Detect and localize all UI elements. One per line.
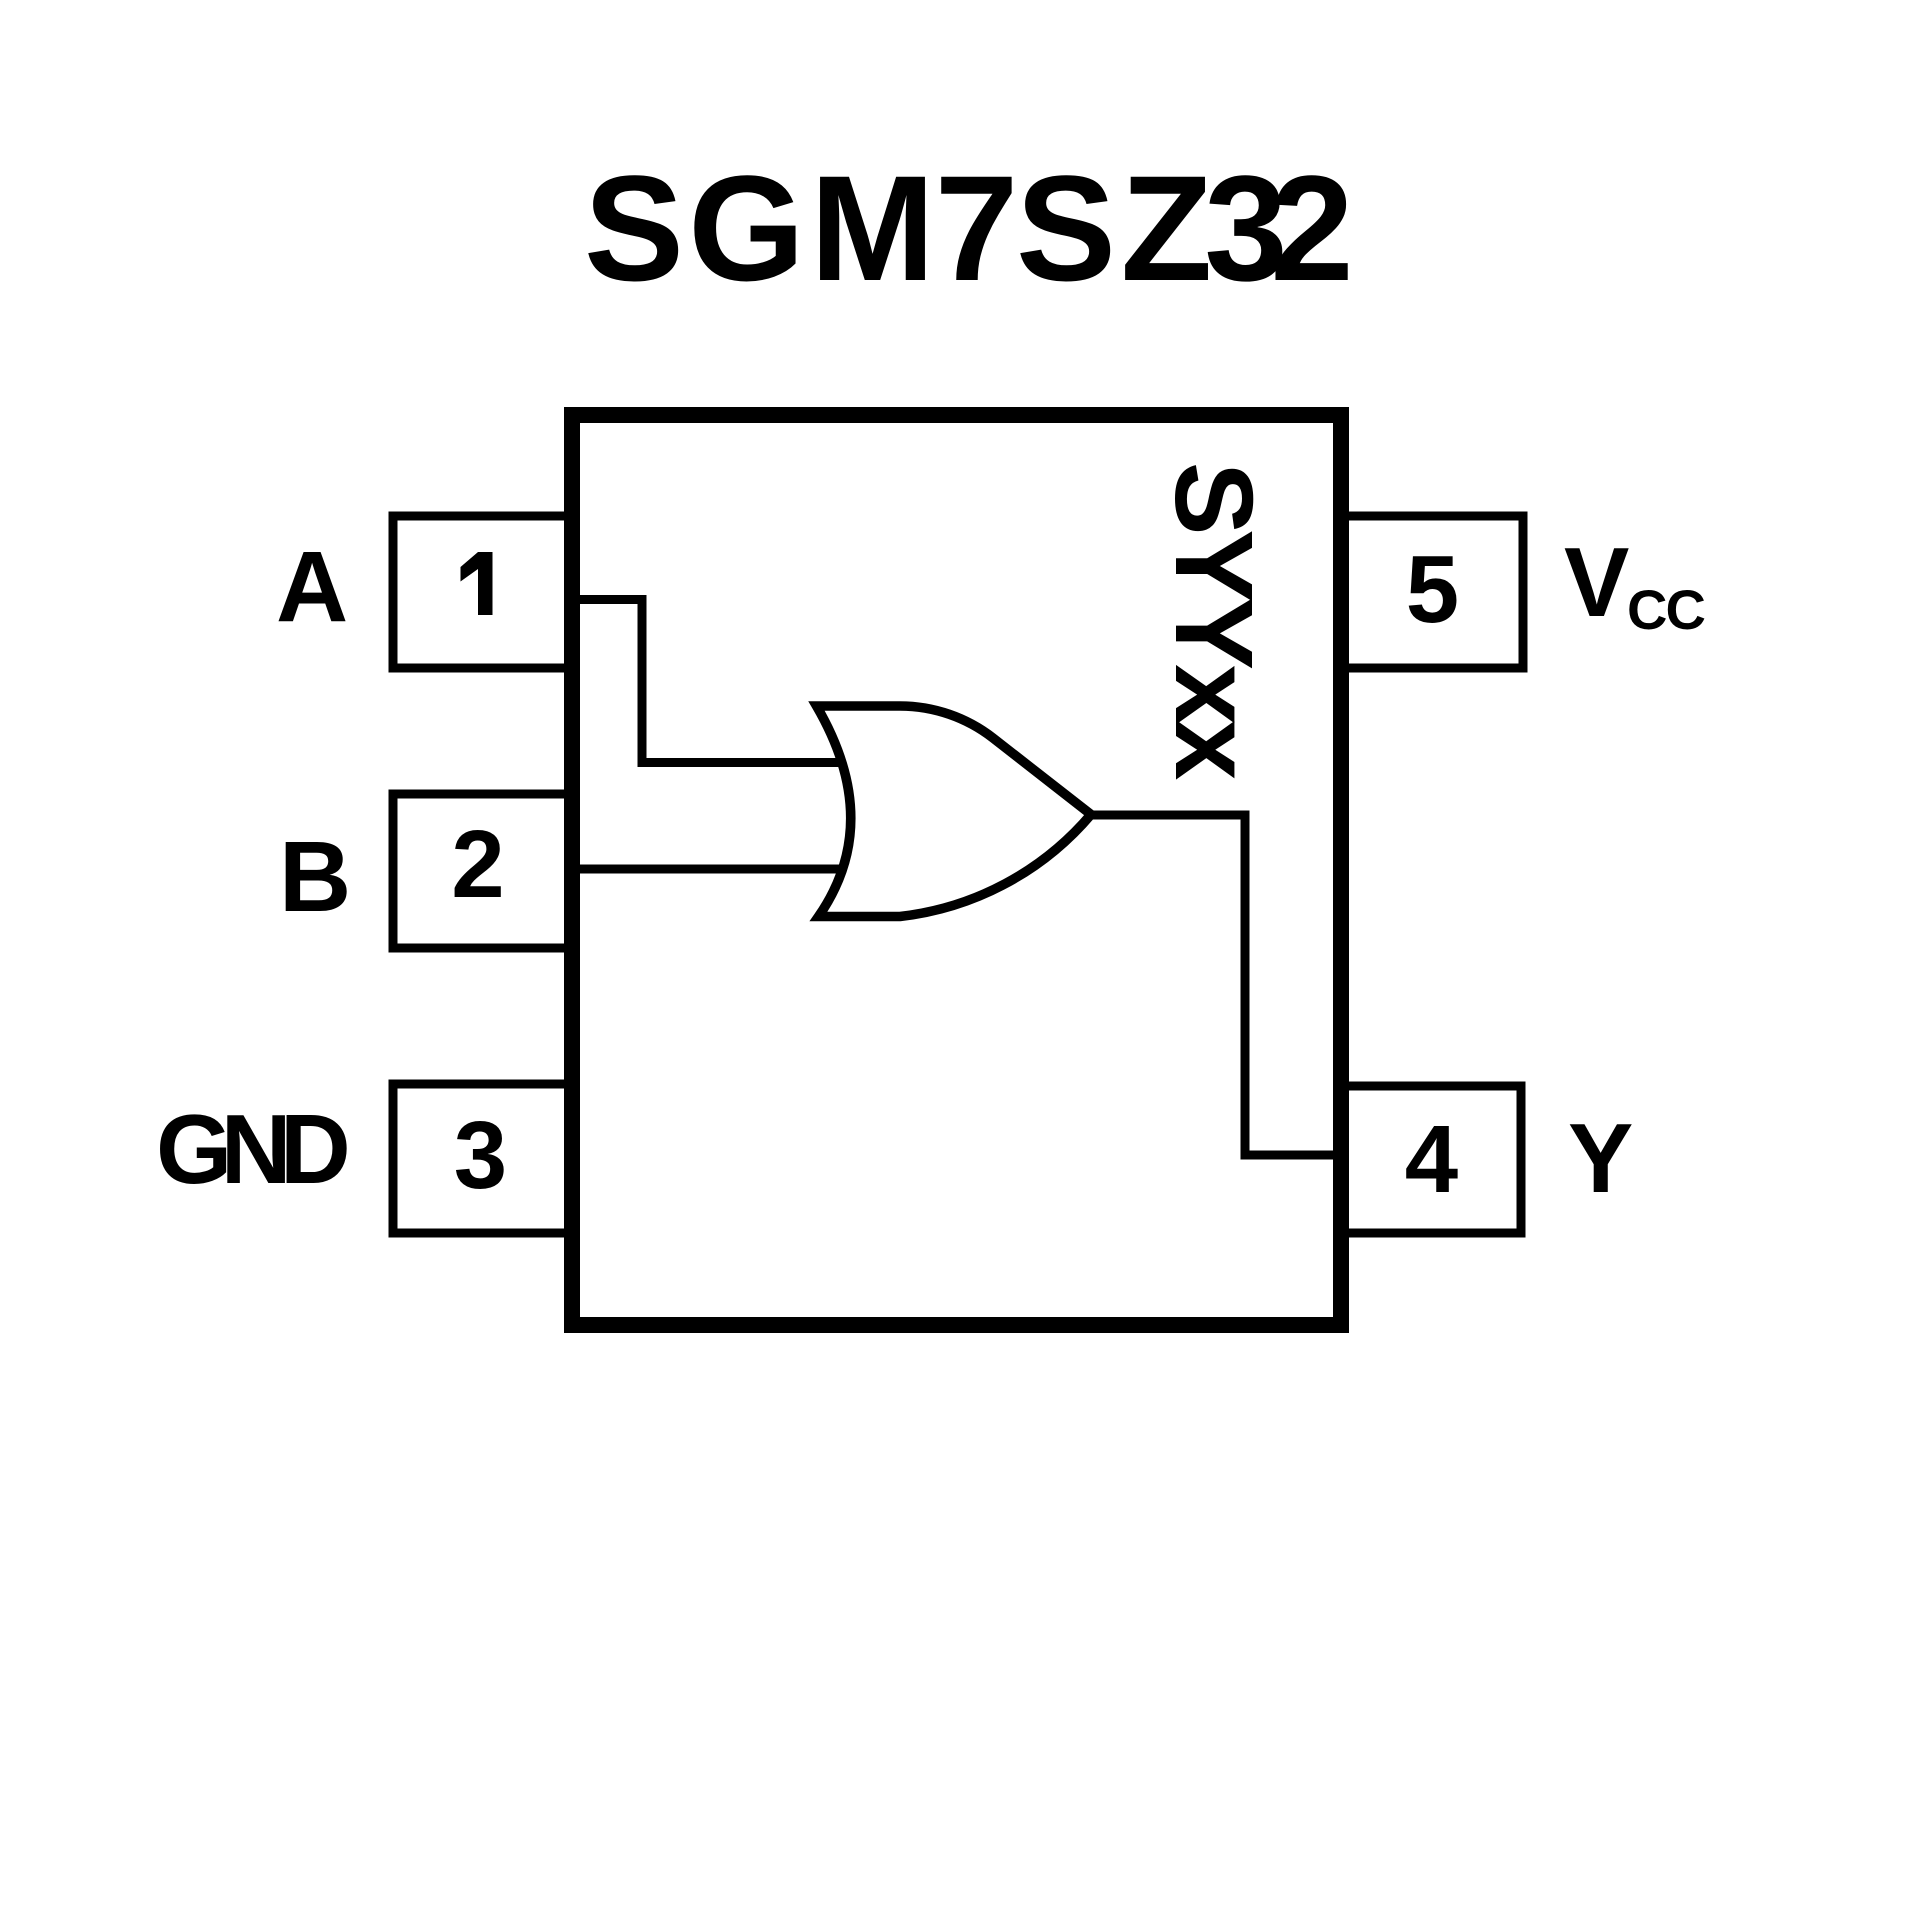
- svg-text:2: 2: [1270, 144, 1353, 312]
- svg-text:V: V: [1564, 527, 1629, 637]
- svg-text:G: G: [688, 144, 805, 312]
- svg-text:Z: Z: [1121, 144, 1213, 312]
- svg-text:M: M: [810, 144, 935, 312]
- svg-text:S: S: [1016, 144, 1116, 312]
- svg-text:5: 5: [1406, 536, 1459, 643]
- svg-text:Y: Y: [1568, 1103, 1633, 1213]
- svg-text:B: B: [279, 821, 351, 933]
- svg-text:7: 7: [935, 144, 1018, 312]
- svg-text:S: S: [584, 144, 684, 312]
- svg-text:CC: CC: [1627, 578, 1704, 641]
- svg-text:SYYxx: SYYxx: [1152, 462, 1275, 780]
- svg-text:A: A: [276, 531, 348, 643]
- svg-text:4: 4: [1405, 1106, 1458, 1213]
- svg-text:3: 3: [454, 1102, 507, 1209]
- svg-text:2: 2: [451, 811, 504, 918]
- svg-text:GND: GND: [156, 1094, 347, 1204]
